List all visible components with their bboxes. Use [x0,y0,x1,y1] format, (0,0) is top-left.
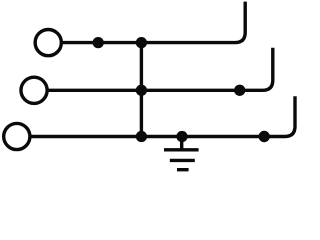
ground bar 3 [177,168,189,171]
ground bar 2 [170,159,195,162]
junction dot on bottom rail right [259,131,270,142]
wire: middle rail with right hook [47,48,273,91]
ground bar 1 [164,148,199,151]
junction dot on top rail [93,37,104,48]
ground [164,137,199,170]
junction dot: ground tap [176,131,187,142]
terminal circle X2 (middle level) [21,77,47,103]
wire: vertical bus [140,43,143,137]
junction dot: bottom rail / bus [136,131,147,142]
terminal circle X1 (top level) [35,29,61,55]
wire: ground stem [180,137,183,150]
junction dot on middle rail right [234,85,245,96]
terminal circle X3 (bottom level) [4,123,30,149]
junction dot: middle rail / bus [136,85,147,96]
wire: top rail with right hook [61,2,245,43]
junction dot: top rail / bus [136,37,147,48]
wire: bottom rail with right hook [30,96,296,136]
